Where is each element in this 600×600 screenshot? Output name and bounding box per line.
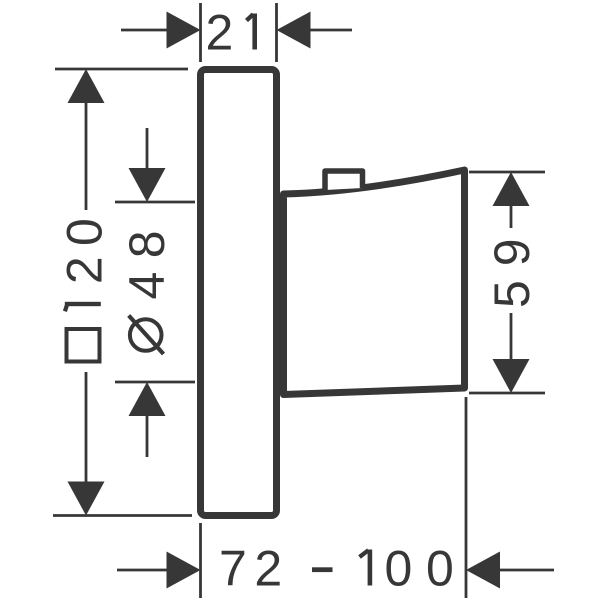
svg-text:2: 2: [206, 5, 234, 61]
dim 120: down arrowhead: [68, 482, 105, 516]
svg-text:59: 59: [484, 238, 540, 308]
dim 72-100: right arrowhead: [466, 552, 500, 589]
dim 72-100: right extension line: [465, 397, 468, 598]
dim 72-100: left dimension line: [117, 569, 168, 572]
dim 21: digit 1 flag: [247, 14, 254, 20]
dim 72-100: right dimension line: [499, 569, 554, 572]
dim 120: digit 1 stem: [65, 302, 101, 306]
dim 21: right extension line: [275, 3, 278, 62]
dim 59: down arrowhead: [493, 359, 530, 393]
dim 48: diameter symbol slash: [129, 316, 164, 355]
dim 48: top extension line: [115, 201, 195, 204]
dim 21: left arrowhead: [167, 12, 201, 49]
handle knob body (side view): [284, 170, 465, 395]
dim 48: diameter symbol circle: [130, 319, 162, 351]
dim 48: upper dimension line: [146, 128, 149, 170]
dim 72-100: dash: [312, 567, 333, 572]
dim 59: up arrowhead: [493, 172, 530, 206]
dim 72-100: left arrowhead: [167, 552, 201, 589]
dim 48: lower dimension line: [146, 415, 149, 457]
dim 21: left extension line: [199, 3, 202, 62]
dim 21: left dimension line: [121, 29, 168, 32]
dim 59: top extension line: [469, 171, 545, 174]
dim 72-100: digit 1 flag: [360, 550, 369, 557]
svg-text:7200: 7200: [219, 541, 454, 597]
dim 120: bottom extension line: [53, 514, 192, 517]
dim 120: square symbol: [67, 329, 100, 362]
dim 21: right arrowhead: [277, 12, 311, 49]
dim 48: down arrowhead: [129, 168, 166, 202]
dim 120: digit 1 flag: [65, 306, 67, 312]
dim 59: lower dimension line: [510, 313, 513, 360]
dim 21: digit 1 stem: [252, 14, 257, 50]
dim 120: up arrowhead: [68, 69, 105, 103]
dim 72-100: digit 1 stem: [368, 550, 373, 586]
dim 48: up arrowhead: [129, 382, 166, 416]
dim 48: bottom extension line: [115, 381, 195, 384]
dim 120: top extension line: [55, 68, 188, 71]
svg-text:20: 20: [57, 218, 113, 284]
dim 120: lower dimension line: [85, 372, 88, 483]
dim 120: upper dimension line: [85, 102, 88, 210]
handle marker tab: [325, 171, 363, 190]
dim 59: upper dimension line: [510, 205, 513, 228]
dim 59: bottom extension line: [469, 392, 545, 395]
dim 72-100: left extension line: [199, 523, 202, 598]
svg-text:48: 48: [119, 230, 175, 299]
dim 21: right dimension line: [309, 29, 352, 32]
escutcheon plate (square rosette, side view): [201, 70, 277, 516]
